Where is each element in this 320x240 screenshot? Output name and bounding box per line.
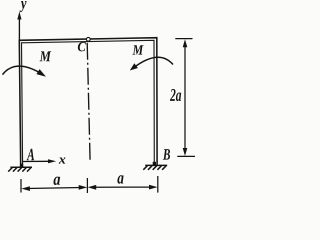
label 2a [170,89,181,101]
label B [163,149,170,160]
label M (left) [40,51,52,61]
fixed support A : hatching [8,168,31,172]
label C [78,42,86,51]
support B column base wedge [153,162,156,165]
support A column base wedge [20,164,23,167]
bottom dimension : center extension tick [86,178,88,193]
moment arrow M left (clockwise arc) [3,66,47,77]
centerline (dash-dot axis of symmetry) [87,43,90,161]
moment arrow M right (counterclockwise arc) [130,57,173,70]
dimension 2a : top extension tick [175,38,192,40]
label A [27,149,35,160]
label x [59,158,66,164]
bottom dimension : left extension tick [20,179,22,193]
dimension a (right span) line with arrowheads [88,185,158,190]
label a (left) [53,177,60,185]
label a (right) [117,175,123,183]
frame outer contour (columns AB + beam, outer line) [19,38,157,168]
fixed support A : ground line [10,166,32,168]
dimension a (left span) line with arrowheads [21,185,87,191]
x-axis arrow [23,159,56,163]
dimension 2a : vertical line with arrowheads [183,39,188,156]
node C marker circle [86,37,90,41]
y-axis arrow [17,12,21,40]
fixed support B : hatching [143,166,166,170]
fixed support B : ground line [145,164,167,166]
label y [20,1,27,12]
dimension 2a : bottom extension tick [177,155,195,157]
label M (right) [132,45,143,54]
bottom dimension : right extension tick [157,176,159,193]
frame inner contour (columns AB + beam, inner line) [22,40,155,168]
